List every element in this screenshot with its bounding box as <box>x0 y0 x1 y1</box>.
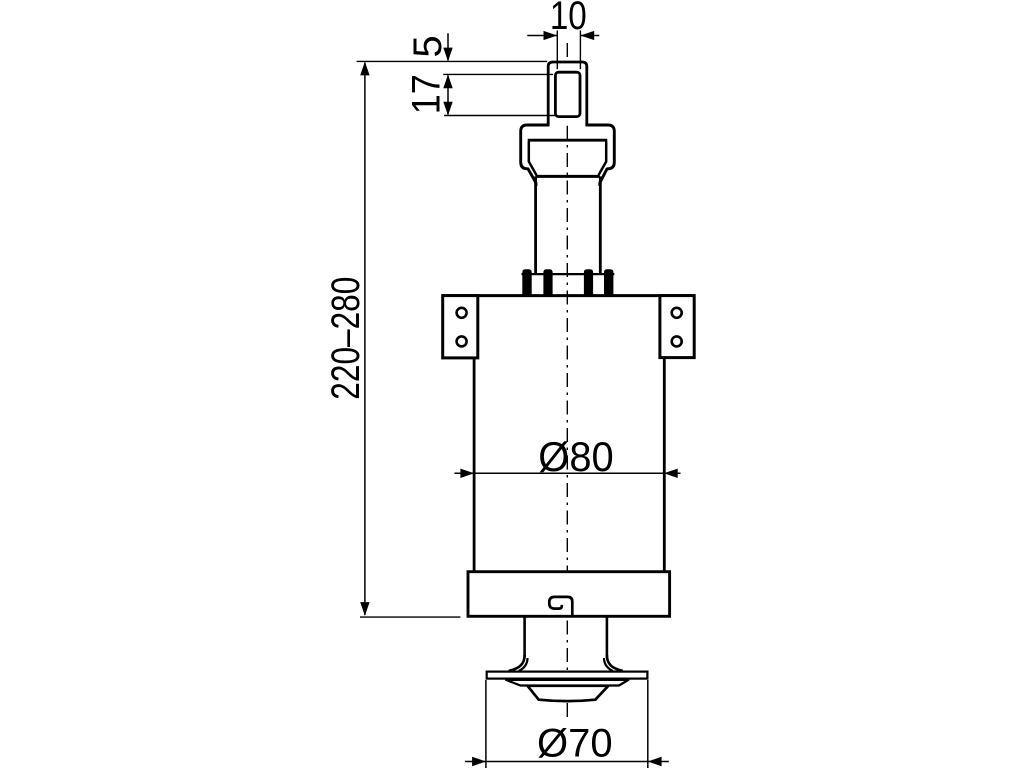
collar inner wall left <box>529 142 537 176</box>
bottom dome <box>528 686 609 701</box>
dim Ø70: extension line right <box>647 680 649 768</box>
seal plate <box>487 672 648 679</box>
dim 10: left line and arrow <box>527 35 557 37</box>
mounting tab right <box>660 296 694 358</box>
collar outline left <box>521 125 550 186</box>
toothed lock ring: black castellations <box>522 269 613 296</box>
bell flare inner left <box>519 658 528 671</box>
bottom flange box <box>468 572 670 617</box>
dim 10: extension line right <box>579 31 581 70</box>
collar outline right <box>586 125 615 186</box>
cylinder wall right <box>599 176 602 273</box>
dim Ø70: extension line left <box>485 680 487 768</box>
extension line bottom of flange (220-280) <box>360 616 460 618</box>
svg-text:5: 5 <box>406 35 450 57</box>
centerline (dash-dot axis) <box>566 43 568 718</box>
body side right <box>663 357 666 572</box>
neck joint thick line <box>536 175 600 178</box>
cylinder wall left <box>534 176 537 273</box>
tab hole right upper <box>672 308 682 318</box>
outlet stem wall right <box>606 616 609 657</box>
dim 17: arrows and line <box>447 76 449 115</box>
mounting tab left <box>443 296 478 358</box>
tab hole right lower <box>672 336 682 346</box>
bell flare outer left <box>510 655 525 672</box>
pin inner rod (10mm rod) <box>555 72 580 116</box>
dim 220-280: dimension line <box>364 63 366 616</box>
svg-text:17: 17 <box>405 74 449 114</box>
retainer hook inside flange <box>549 597 572 616</box>
dim 10: extension line left <box>556 31 558 70</box>
gasket ring <box>506 680 629 686</box>
extension line top of inner rod <box>443 73 553 75</box>
extension line bottom of inner rod <box>444 115 555 117</box>
dim Ø70: dimension line <box>465 761 669 763</box>
svg-text:Ø80: Ø80 <box>538 433 613 480</box>
extension line top of pin (shared 5 / 220-280) <box>357 60 548 62</box>
pin outer body (push-rod sleeve) <box>548 62 587 126</box>
dim 10: right line and arrow <box>581 35 599 37</box>
lock ring top line <box>522 273 615 275</box>
bell flare inner right <box>604 658 613 671</box>
body top edge <box>443 294 695 297</box>
svg-text:220–280: 220–280 <box>322 277 367 400</box>
collar inner wall right <box>599 142 607 176</box>
tab hole left lower <box>457 336 467 346</box>
svg-text:Ø70: Ø70 <box>537 722 613 766</box>
tab hole left upper <box>457 308 467 318</box>
outlet stem wall left <box>523 616 526 657</box>
dim 5: dimension line and arrow <box>447 33 449 60</box>
collar seat line <box>528 139 608 142</box>
dim Ø80: dimension line <box>455 472 681 474</box>
body side left <box>473 357 476 572</box>
bell flare outer right <box>607 655 622 672</box>
svg-text:10: 10 <box>550 0 587 38</box>
